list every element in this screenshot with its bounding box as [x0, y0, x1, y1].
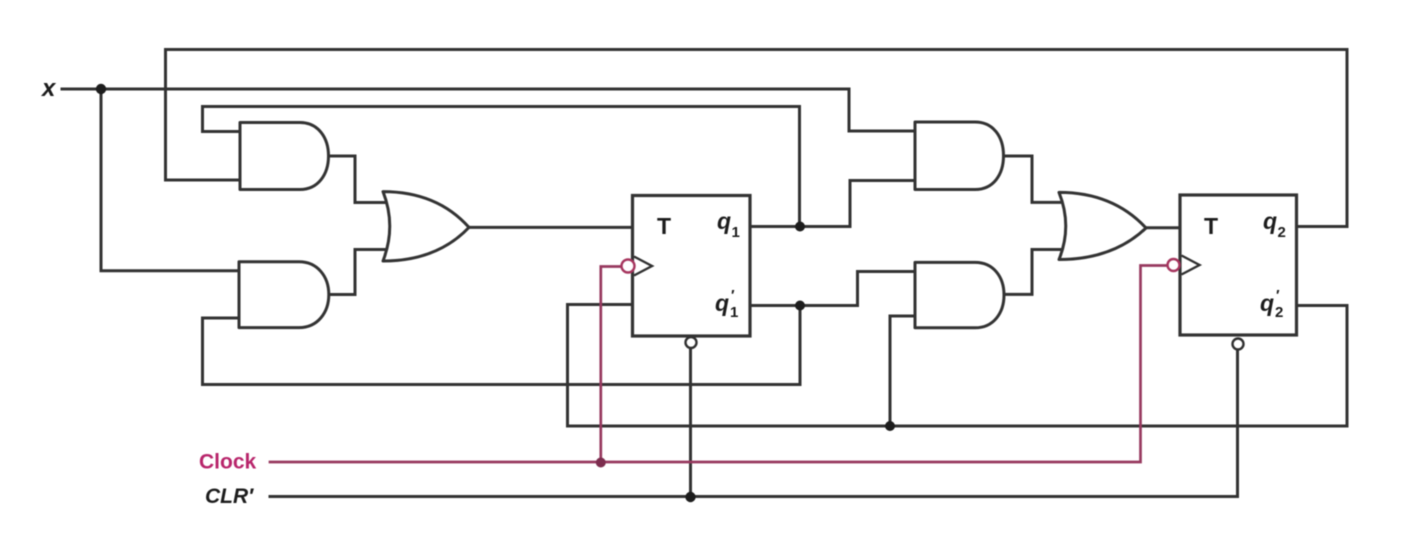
svg-text:CLR′: CLR′ — [205, 485, 254, 508]
svg-text:T: T — [657, 213, 671, 239]
junction node on q2' loop — [885, 421, 895, 431]
junction node on Clock — [596, 458, 606, 468]
or-gate O2 — [1059, 192, 1146, 259]
clear bubble U2 — [1233, 339, 1244, 350]
T flip-flop U2 — [1180, 195, 1297, 335]
clock bubble U1 — [622, 260, 635, 273]
svg-text:1: 1 — [732, 224, 740, 241]
junction node on x input — [96, 84, 106, 94]
and-gate A1 — [240, 123, 329, 190]
or-gate O1 — [383, 192, 469, 261]
wire q2' branch to AND4 bottom input — [890, 316, 915, 426]
wire Clock branch to U1 clock — [601, 267, 621, 463]
wire OR2 output to T input of U2 — [1146, 226, 1180, 229]
wire q1 output to AND3 bottom input — [750, 181, 915, 227]
T flip-flop U1 — [633, 196, 751, 337]
wire AND4 output to OR2 bottom input — [1004, 250, 1068, 295]
svg-text:T: T — [1204, 213, 1218, 239]
wire AND2 output to OR1 bottom input — [329, 250, 391, 295]
clock bubble U2 — [1168, 259, 1180, 271]
svg-text:2: 2 — [1278, 224, 1286, 241]
clock edge triangle U1 — [634, 257, 652, 276]
svg-text:q: q — [715, 290, 729, 316]
wire CLR' line — [270, 350, 1238, 497]
clock edge triangle U2 — [1182, 256, 1200, 275]
wire x branch down to AND2 top input — [101, 89, 240, 271]
junction node on CLR' — [685, 492, 695, 502]
wire q2 feedback top loop to AND1 bottom input — [166, 50, 1348, 227]
wire Clock line to U2 clock — [270, 266, 1166, 463]
svg-text:1: 1 — [730, 304, 738, 321]
wire AND3 output to OR2 top input — [1004, 156, 1069, 202]
svg-text:q: q — [1263, 208, 1277, 234]
wire q1 feedback to AND1 top input — [203, 107, 800, 227]
svg-text:2: 2 — [1275, 304, 1283, 321]
svg-text:′: ′ — [731, 287, 735, 304]
svg-text:q: q — [1260, 290, 1274, 316]
wire q2' loop to U1 left side — [568, 305, 1348, 427]
wire q1' loop down to AND2 bottom input — [203, 306, 801, 385]
junction node on q1' — [795, 301, 805, 311]
and-gate A3 — [915, 122, 1004, 190]
clear bubble U1 — [686, 337, 697, 348]
junction node on q1 — [795, 222, 805, 232]
svg-text:x: x — [40, 75, 57, 102]
wire AND1 output to OR1 top input — [329, 156, 392, 203]
Clock wiring (maroon) — [270, 266, 1166, 463]
wire OR1 output to T input of U1 — [469, 226, 633, 229]
and-gate A4 — [915, 262, 1004, 327]
svg-text:q: q — [717, 208, 731, 234]
svg-text:Clock: Clock — [199, 451, 257, 474]
wire x input lead to AND3 top input — [62, 89, 915, 131]
svg-text:′: ′ — [1276, 287, 1280, 304]
and-gate A2 — [239, 262, 329, 328]
wire CLR' branch to U1 — [689, 349, 692, 497]
wire q1' output to AND4 top input — [750, 272, 915, 306]
